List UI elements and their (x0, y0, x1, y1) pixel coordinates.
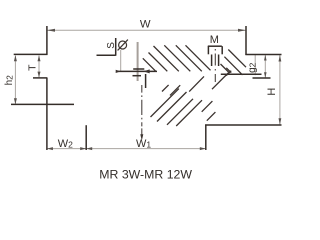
svg-text:H: H (266, 88, 278, 96)
svg-text:M: M (210, 34, 219, 46)
svg-text:S: S (106, 42, 117, 49)
svg-text:g2: g2 (247, 62, 258, 73)
svg-text:h2: h2 (4, 75, 15, 86)
svg-text:W1: W1 (136, 138, 151, 150)
svg-text:T: T (27, 64, 39, 71)
svg-text:W2: W2 (58, 138, 73, 150)
svg-text:W: W (140, 18, 151, 30)
svg-text:MR 3W-MR 12W: MR 3W-MR 12W (99, 167, 192, 181)
